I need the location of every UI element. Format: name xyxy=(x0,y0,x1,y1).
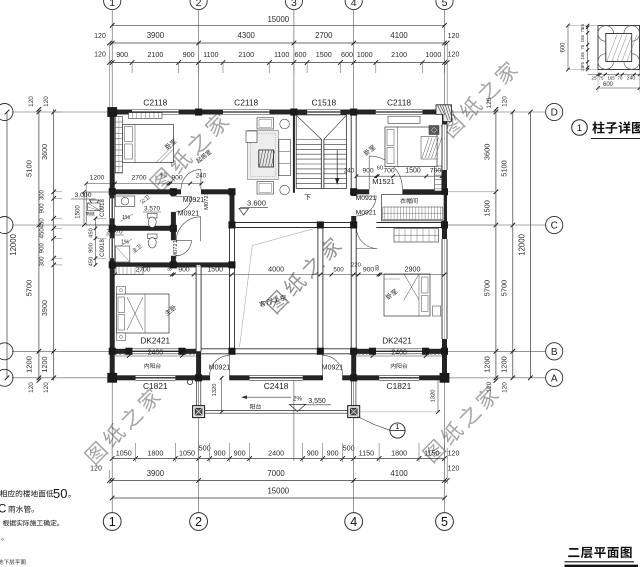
note dot xyxy=(1,538,3,540)
svg-text:900: 900 xyxy=(307,449,319,458)
svg-text:80: 80 xyxy=(375,265,381,271)
stair label down xyxy=(304,194,310,200)
dim row DK right xyxy=(354,355,445,357)
svg-text:M0921: M0921 xyxy=(356,210,377,217)
svg-text:165: 165 xyxy=(580,34,585,42)
column xyxy=(228,261,235,268)
svg-text:1200: 1200 xyxy=(25,356,34,373)
nightstand master lower xyxy=(117,333,126,341)
svg-text:4300: 4300 xyxy=(238,31,256,40)
svg-text:2700: 2700 xyxy=(131,175,146,182)
svg-text:1200: 1200 xyxy=(90,175,105,182)
door M0921 bedroom4 arc xyxy=(356,228,377,249)
svg-text:M0921: M0921 xyxy=(178,211,200,218)
axis line 4 xyxy=(353,10,355,110)
svg-text:120: 120 xyxy=(486,97,493,108)
extension lines bottom xyxy=(111,443,113,462)
wardrobe bedroom1 xyxy=(115,117,122,174)
column xyxy=(109,348,116,355)
wall exterior bottom A xyxy=(110,375,447,380)
wardrobe bedroom2 right xyxy=(435,166,442,191)
axis circle B right xyxy=(447,350,545,352)
interior dim row middle xyxy=(114,274,445,276)
svg-text:M0721: M0721 xyxy=(204,192,210,210)
svg-text:M0721: M0721 xyxy=(173,240,179,258)
right dimension column 12000 xyxy=(529,112,531,378)
column xyxy=(317,348,324,355)
svg-text:1: 1 xyxy=(109,0,115,9)
door-window DK2421 right xyxy=(373,348,426,354)
svg-text:1200: 1200 xyxy=(40,357,49,373)
svg-text:3.570: 3.570 xyxy=(144,206,160,213)
window C1518 top xyxy=(307,109,340,115)
corner block xyxy=(107,373,117,383)
axis circle left xyxy=(12,377,110,379)
svg-text:C1821: C1821 xyxy=(387,381,412,391)
armchair left living xyxy=(246,131,257,143)
axis circle 2 bottom xyxy=(190,513,208,531)
axis circle 1 top xyxy=(104,0,121,10)
axis circle left xyxy=(12,224,110,226)
svg-text:900: 900 xyxy=(116,50,128,59)
svg-text:2400: 2400 xyxy=(268,449,284,458)
right dimension column detail xyxy=(495,109,497,380)
svg-text:4: 4 xyxy=(350,515,357,529)
door M1521 arc xyxy=(369,156,402,189)
svg-text:120: 120 xyxy=(28,96,35,107)
axis circle 5 bottom xyxy=(436,513,454,531)
column xyxy=(195,109,202,116)
rain pipe xyxy=(187,379,192,384)
svg-text:1800: 1800 xyxy=(147,449,163,458)
svg-text:5700: 5700 xyxy=(483,280,492,296)
svg-text:120: 120 xyxy=(448,52,460,59)
svg-text:750: 750 xyxy=(115,350,126,357)
svg-text:60: 60 xyxy=(160,173,166,179)
column xyxy=(350,374,357,381)
balcony column left xyxy=(193,406,205,418)
column xyxy=(178,348,185,355)
table top living xyxy=(257,118,274,129)
svg-text:C0918: C0918 xyxy=(100,239,106,257)
svg-text:3.600: 3.600 xyxy=(247,199,266,208)
svg-text:450: 450 xyxy=(89,228,95,238)
svg-text:165: 165 xyxy=(580,52,585,60)
svg-text:1500: 1500 xyxy=(76,205,82,219)
svg-text:D: D xyxy=(551,108,558,119)
svg-text:120: 120 xyxy=(43,96,50,107)
svg-text:450: 450 xyxy=(40,218,46,229)
note line 1 xyxy=(0,490,53,497)
column xyxy=(441,188,448,195)
column xyxy=(441,221,448,228)
svg-text:3.570: 3.570 xyxy=(107,229,123,236)
column xyxy=(195,374,202,381)
door balcony left arc xyxy=(210,355,230,375)
svg-text:12000: 12000 xyxy=(518,233,527,255)
svg-text:M1521: M1521 xyxy=(372,177,395,186)
column xyxy=(350,348,357,355)
svg-text:2400: 2400 xyxy=(391,350,407,357)
svg-text:120: 120 xyxy=(502,96,509,107)
axis circle D right xyxy=(447,111,545,113)
column xyxy=(125,348,132,355)
dresser bedroom1 xyxy=(129,113,163,119)
column detail square xyxy=(598,26,640,70)
svg-text:1320: 1320 xyxy=(212,384,218,397)
svg-text:240: 240 xyxy=(344,168,355,175)
svg-text:5100: 5100 xyxy=(25,160,34,177)
svg-text:240: 240 xyxy=(627,76,636,82)
svg-text:5: 5 xyxy=(442,0,448,9)
svg-text:5700: 5700 xyxy=(25,280,34,297)
svg-text:1: 1 xyxy=(396,424,400,431)
sofa right living xyxy=(279,140,291,176)
axis circle left xyxy=(12,350,110,352)
svg-text:750: 750 xyxy=(185,350,196,357)
door balcony right arc xyxy=(323,355,343,375)
column xyxy=(422,348,429,355)
wall void left vertical xyxy=(230,192,235,225)
column detail lobes xyxy=(598,26,614,42)
svg-text:450: 450 xyxy=(89,257,95,267)
svg-text:900: 900 xyxy=(234,449,246,458)
svg-text:80: 80 xyxy=(168,265,174,271)
svg-text:1: 1 xyxy=(109,515,116,529)
svg-text:M0921: M0921 xyxy=(322,365,344,372)
wall exterior left xyxy=(110,110,115,381)
axis circle 1 bottom xyxy=(103,513,121,531)
sofa group living room xyxy=(248,131,279,180)
toilet bath2 xyxy=(148,234,158,239)
wall void right vertical xyxy=(318,225,323,351)
svg-text:4000: 4000 xyxy=(268,265,284,274)
svg-text:500: 500 xyxy=(333,267,344,274)
column xyxy=(369,348,376,355)
wall axis3 stair side xyxy=(293,112,295,193)
bath room label 2 xyxy=(131,244,142,254)
hollow wall segment right lower xyxy=(442,239,447,339)
side circle top xyxy=(280,119,290,129)
svg-text:75: 75 xyxy=(580,27,585,32)
svg-text:900: 900 xyxy=(171,175,183,182)
column xyxy=(170,225,177,232)
column detail left chain xyxy=(587,26,589,70)
drawing title xyxy=(568,547,631,558)
column xyxy=(228,348,235,355)
watermark center void xyxy=(264,235,344,315)
svg-text:2700: 2700 xyxy=(135,267,150,274)
bed bedroom1 xyxy=(123,125,174,163)
door opening M0921 balcony right xyxy=(323,375,343,381)
svg-text:4100: 4100 xyxy=(390,31,408,40)
wall strip divider axis4 xyxy=(351,351,356,378)
svg-text:900: 900 xyxy=(183,50,195,59)
svg-text:120: 120 xyxy=(502,382,509,393)
axis circle 2 top xyxy=(190,0,207,10)
door M0721 bath1 arc xyxy=(176,196,192,212)
room label bedroom2 xyxy=(363,144,376,156)
axis line 1 xyxy=(111,10,113,110)
svg-text:3900: 3900 xyxy=(147,469,165,478)
note bottom fragment xyxy=(0,559,26,564)
left dimension column 12000 xyxy=(6,112,8,378)
axis circle 4 bottom xyxy=(345,513,363,531)
column detail core xyxy=(606,34,632,62)
svg-text:900: 900 xyxy=(327,449,339,458)
wall exterior top xyxy=(110,110,447,115)
svg-text:5700: 5700 xyxy=(500,280,509,296)
wardrobe master top xyxy=(116,267,143,275)
axis circle A right xyxy=(447,377,545,379)
svg-text:60: 60 xyxy=(377,166,383,172)
corner block xyxy=(440,373,450,383)
window C0918 upper xyxy=(109,198,115,218)
svg-text:600: 600 xyxy=(341,50,353,59)
balcony column right xyxy=(348,406,360,418)
axis line 5 xyxy=(444,10,446,110)
balcony level triangle xyxy=(289,404,305,411)
axis line 2 xyxy=(198,10,200,110)
axis circle 4 top xyxy=(345,0,362,10)
svg-text:7000: 7000 xyxy=(267,469,285,478)
interior dim row bedrooms top xyxy=(115,183,201,185)
column xyxy=(441,348,448,355)
closet cabinet xyxy=(382,195,445,221)
svg-text:850: 850 xyxy=(430,350,441,357)
svg-text:3900: 3900 xyxy=(147,31,165,40)
column xyxy=(109,261,116,268)
stairs xyxy=(296,115,346,188)
wall mid bedrooms xyxy=(110,189,181,194)
axis circle 3 top xyxy=(285,0,302,10)
bottom dimension row 15000 xyxy=(112,497,444,499)
svg-text:C1821: C1821 xyxy=(143,381,168,391)
column detail title xyxy=(572,120,588,136)
svg-text:600: 600 xyxy=(295,50,307,59)
side circle bottom xyxy=(280,185,290,195)
svg-text:3,550: 3,550 xyxy=(308,398,326,405)
svg-text:M0921: M0921 xyxy=(183,197,205,204)
svg-text:500: 500 xyxy=(199,444,211,453)
svg-text:120: 120 xyxy=(94,33,106,40)
svg-text:700: 700 xyxy=(430,168,442,175)
door-window DK2421 left xyxy=(129,348,182,354)
svg-text:25: 25 xyxy=(592,76,597,81)
svg-text:1100: 1100 xyxy=(203,50,218,59)
svg-text:1150: 1150 xyxy=(359,449,374,458)
canopy dim 1500 xyxy=(83,192,85,225)
balcony rail left xyxy=(195,380,197,405)
svg-text:2: 2 xyxy=(195,515,202,529)
room label bedroom4 xyxy=(385,288,398,300)
wall strip divider axis2 xyxy=(196,351,201,378)
svg-text:1800: 1800 xyxy=(391,449,407,458)
svg-text:700: 700 xyxy=(383,168,395,175)
svg-text:C: C xyxy=(0,504,6,516)
nightstand bedroom4 xyxy=(433,306,441,316)
svg-text:C0918: C0918 xyxy=(100,199,106,217)
svg-text:120: 120 xyxy=(486,381,493,392)
dim row DK left xyxy=(112,355,198,357)
svg-text:1500: 1500 xyxy=(483,200,492,216)
column detail bottom chain xyxy=(588,74,640,76)
svg-text:C: C xyxy=(551,221,558,232)
svg-text:900: 900 xyxy=(40,243,46,254)
canopy eave hatch xyxy=(88,203,101,211)
svg-text:1150: 1150 xyxy=(424,449,439,458)
axis circle C right xyxy=(447,224,545,226)
nightstand bedroom2 xyxy=(429,126,439,135)
bath room label 1 xyxy=(139,194,150,204)
column xyxy=(350,221,357,228)
watermark top right xyxy=(440,59,520,139)
svg-text:500: 500 xyxy=(343,444,355,453)
bed master xyxy=(117,294,170,333)
bed bedroom2 xyxy=(385,127,437,167)
svg-text:450: 450 xyxy=(40,228,46,239)
svg-text:1000: 1000 xyxy=(357,50,373,59)
hollow wall segment right upper xyxy=(442,125,447,171)
svg-text:C2118: C2118 xyxy=(143,98,167,108)
nightstand master upper xyxy=(117,287,126,295)
window C2118 top 2 xyxy=(223,109,270,115)
wall exterior right xyxy=(442,110,447,381)
wall bath divider xyxy=(110,226,176,231)
door M0921 closet arc xyxy=(356,196,376,216)
window C0918 lower xyxy=(109,238,115,258)
window C1821 bottom right xyxy=(379,375,419,381)
column xyxy=(109,109,116,116)
top dimension row spans xyxy=(110,42,448,44)
shower bath2 xyxy=(115,246,130,262)
svg-text:15000: 15000 xyxy=(267,15,289,24)
canopy outline xyxy=(86,192,109,225)
svg-text:120: 120 xyxy=(43,382,50,393)
svg-text:1500: 1500 xyxy=(405,168,421,175)
svg-text:600: 600 xyxy=(561,42,567,53)
axis line 3 xyxy=(293,10,295,110)
svg-text:120: 120 xyxy=(448,466,460,473)
column xyxy=(228,221,235,228)
svg-text:12000: 12000 xyxy=(9,233,18,255)
closet room label xyxy=(400,198,417,204)
svg-text:15000: 15000 xyxy=(267,487,289,496)
column xyxy=(317,221,324,228)
inner balcony labels xyxy=(144,363,160,368)
svg-text:2100: 2100 xyxy=(391,50,407,59)
axis circle 5 top xyxy=(436,0,453,10)
door opening M0921 balcony left xyxy=(210,375,230,381)
balcony slope arrow xyxy=(243,396,292,398)
stair down arrow xyxy=(336,150,338,183)
svg-text:900: 900 xyxy=(363,267,375,274)
svg-text:2%: 2% xyxy=(293,396,303,403)
svg-text:3600: 3600 xyxy=(40,144,49,160)
left dimension column detail xyxy=(53,109,55,380)
wall master east xyxy=(196,265,201,351)
window C2118 top 3 xyxy=(376,109,423,115)
column xyxy=(350,188,357,195)
balcony rail front xyxy=(205,410,348,412)
svg-text:50: 50 xyxy=(53,486,67,501)
bed blanket hatch bedroom2 xyxy=(421,137,437,160)
room label bedroom1 xyxy=(164,138,177,150)
wall axis4 vertical xyxy=(351,112,356,192)
svg-text:C2118: C2118 xyxy=(234,98,258,108)
detail callout 1 xyxy=(358,417,390,431)
door M0921 bedroom1 arc xyxy=(181,169,201,189)
void diagonal xyxy=(240,229,315,348)
window C1821 bottom left xyxy=(136,375,176,381)
svg-text:4100: 4100 xyxy=(390,469,408,478)
svg-text:2900: 2900 xyxy=(405,265,421,274)
svg-text:120: 120 xyxy=(90,466,102,473)
wall bath bottom xyxy=(110,262,235,267)
void room label xyxy=(259,294,287,307)
column xyxy=(170,188,177,195)
svg-text:C2418: C2418 xyxy=(264,381,289,391)
svg-text:25: 25 xyxy=(580,65,585,70)
watermark right lower xyxy=(421,384,501,464)
svg-text:1200: 1200 xyxy=(483,356,492,372)
window C2118 top 1 xyxy=(132,109,179,115)
balcony label xyxy=(250,404,261,410)
svg-text:5100: 5100 xyxy=(500,160,509,176)
wall bath right vertical xyxy=(171,192,176,197)
svg-text:3600: 3600 xyxy=(483,144,492,160)
wall B xyxy=(110,349,201,354)
top dimension row openings xyxy=(110,62,448,64)
window C2418 bottom center xyxy=(250,375,303,381)
canopy dim 1200 xyxy=(86,183,113,185)
svg-text:1000: 1000 xyxy=(425,50,441,59)
balcony rail right xyxy=(351,380,353,405)
svg-text:2: 2 xyxy=(196,0,202,9)
column xyxy=(441,374,448,381)
svg-text:DK2421: DK2421 xyxy=(382,337,412,346)
bath counter xyxy=(115,196,135,207)
svg-text:1320: 1320 xyxy=(431,390,437,403)
top dimension row 15000 xyxy=(112,24,444,26)
svg-text:120: 120 xyxy=(448,451,460,458)
toilet bath1 xyxy=(148,214,158,219)
svg-text:600: 600 xyxy=(603,82,614,88)
svg-text:300: 300 xyxy=(40,256,46,267)
svg-text:900: 900 xyxy=(40,203,46,214)
svg-text:300: 300 xyxy=(40,189,46,200)
svg-text:1500: 1500 xyxy=(316,50,332,59)
svg-text:220: 220 xyxy=(191,263,201,269)
svg-text:850: 850 xyxy=(358,350,369,357)
column xyxy=(290,109,297,116)
watermark bottom left xyxy=(83,386,163,466)
svg-text:2100: 2100 xyxy=(238,50,254,59)
svg-text:220: 220 xyxy=(351,263,361,269)
svg-text:M0921: M0921 xyxy=(209,365,231,372)
balcony depth dim left 1320 xyxy=(221,378,223,412)
svg-text:240: 240 xyxy=(196,173,207,180)
bed bedroom4 xyxy=(384,274,430,316)
right dimension column spans xyxy=(512,112,514,378)
svg-text:DK2421: DK2421 xyxy=(141,337,171,346)
svg-text:2700: 2700 xyxy=(315,31,333,40)
note line 3 xyxy=(3,520,60,526)
column xyxy=(228,188,235,195)
svg-text:C2118: C2118 xyxy=(387,98,411,108)
room label master xyxy=(164,304,177,316)
room label living xyxy=(195,149,212,164)
